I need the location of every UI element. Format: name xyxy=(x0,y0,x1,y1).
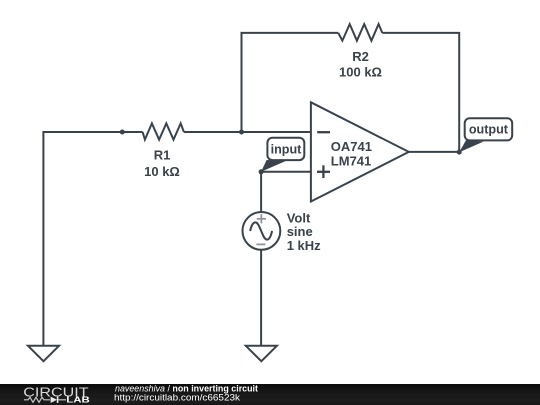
output flag bubble xyxy=(465,118,513,140)
svg-text:output: output xyxy=(469,123,509,137)
svg-text:Volt: Volt xyxy=(287,210,311,225)
wire source bottom vertical xyxy=(260,250,262,346)
voltage source sine wave xyxy=(250,222,272,239)
svg-text:sine: sine xyxy=(287,224,313,239)
node junction dot left of R1 xyxy=(120,130,125,135)
op-amp plus input marker xyxy=(317,165,330,178)
ground center xyxy=(246,346,277,361)
resistor R2 xyxy=(338,24,382,41)
svg-text:LAB: LAB xyxy=(66,395,90,405)
svg-text:1 kHz: 1 kHz xyxy=(287,238,321,253)
output flag tail xyxy=(459,140,483,152)
wire output xyxy=(409,151,459,153)
wire feedback vertical + top left of R2 xyxy=(242,33,339,132)
svg-text:input: input xyxy=(271,142,303,156)
svg-text:OA741: OA741 xyxy=(331,139,372,154)
svg-text:R2: R2 xyxy=(352,49,369,64)
logo resistor zigzag xyxy=(24,397,50,402)
op-amp U1 triangle xyxy=(311,102,409,201)
wire op-amp plus input xyxy=(261,171,311,173)
footer bar xyxy=(0,384,540,405)
ground left xyxy=(28,346,59,361)
resistor R1 xyxy=(143,123,184,139)
input flag tail xyxy=(261,160,286,172)
svg-text:LM741: LM741 xyxy=(331,153,371,168)
source minus marker xyxy=(256,243,265,245)
svg-text:R1: R1 xyxy=(154,147,171,162)
svg-text:10 kΩ: 10 kΩ xyxy=(144,164,180,179)
source plus marker xyxy=(257,214,266,223)
wire top right of R2 + right vertical xyxy=(382,33,459,152)
node output dot xyxy=(457,150,462,155)
svg-text:http://circuitlab.com/c66523k: http://circuitlab.com/c66523k xyxy=(114,392,240,402)
node input dot xyxy=(259,169,264,174)
wire source top vertical xyxy=(260,172,262,213)
voltage source V1 circle xyxy=(243,212,281,250)
node junction dot feedback xyxy=(239,130,244,135)
wire left vertical + main horizontal left of R1 xyxy=(43,132,142,346)
logo diode xyxy=(51,397,57,403)
wire from R1 to op-amp minus input xyxy=(184,131,311,133)
input flag bubble xyxy=(267,138,304,160)
op-amp minus input marker xyxy=(317,131,330,133)
svg-text:100 kΩ: 100 kΩ xyxy=(339,64,382,79)
